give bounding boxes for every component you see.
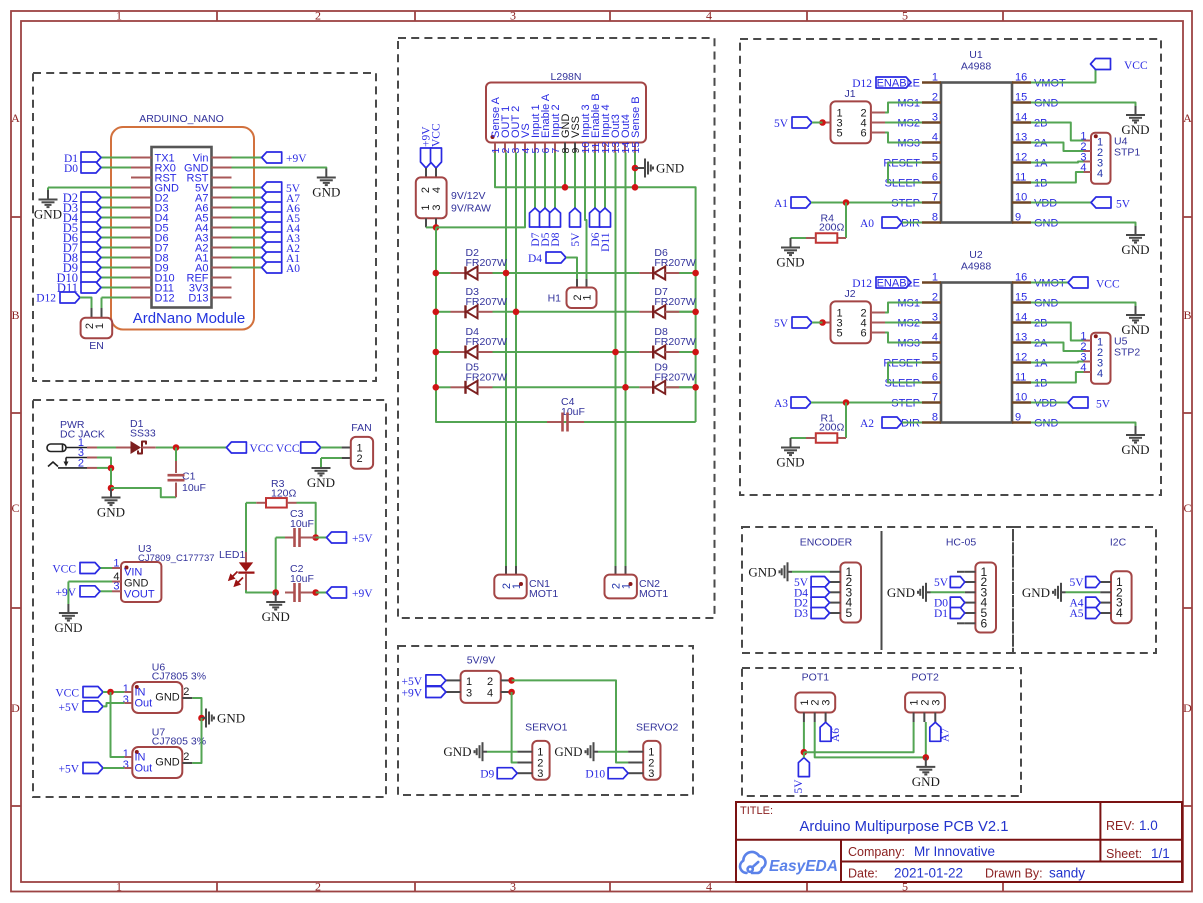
connector H1 <box>576 279 578 288</box>
connector FAN <box>342 447 351 449</box>
svg-text:VCC: VCC <box>250 443 274 455</box>
svg-text:SS33: SS33 <box>130 428 156 440</box>
svg-text:D8: D8 <box>550 232 562 246</box>
ground (SERVO1) <box>487 751 517 753</box>
svg-text:4: 4 <box>932 132 938 144</box>
svg-text:1: 1 <box>116 9 122 23</box>
flag A2 (DIR) <box>882 417 902 428</box>
junctions <box>433 309 440 316</box>
flag 5V (pot) <box>798 758 809 777</box>
svg-text:sandy: sandy <box>1049 866 1085 881</box>
pin RST (right) <box>212 177 232 179</box>
U2 pin 3 MS2 <box>922 321 941 323</box>
svg-text:J2: J2 <box>844 288 855 300</box>
svg-text:5V: 5V <box>793 779 805 794</box>
junction <box>108 485 115 492</box>
pins U3 <box>112 567 121 569</box>
ground (i2c pin2) <box>1066 591 1101 593</box>
ground (U3) <box>67 604 69 613</box>
junction <box>198 715 205 722</box>
pin D6 (left) <box>131 237 152 239</box>
junction <box>107 689 114 696</box>
flag VCC (U1) <box>1091 59 1111 70</box>
svg-text:GND: GND <box>262 609 290 624</box>
svg-text:A: A <box>1183 111 1192 125</box>
flag +9V <box>232 157 262 159</box>
svg-text:VCC: VCC <box>1124 60 1148 72</box>
flag D2 (encoder) <box>811 597 830 608</box>
junction <box>632 184 639 191</box>
svg-text:6: 6 <box>932 172 938 184</box>
pin D8 (left) <box>131 257 152 259</box>
svg-text:1/1: 1/1 <box>1151 846 1170 861</box>
U2 pin 10 VDD <box>1012 401 1031 403</box>
svg-text:A: A <box>11 111 20 125</box>
flag D1 (hc-05) <box>950 608 965 619</box>
svg-text:VCC: VCC <box>52 564 76 576</box>
U1 pin 4 MS3 <box>922 141 941 143</box>
ground (arduino left) <box>47 188 49 191</box>
svg-text:4: 4 <box>1097 168 1103 180</box>
flag VCC (U2 VMOT) <box>1031 282 1068 284</box>
svg-text:Arduino Multipurpose PCB V2.1: Arduino Multipurpose PCB V2.1 <box>800 819 1009 835</box>
svg-text:FR207W: FR207W <box>654 257 696 269</box>
pin 5V (right) <box>212 187 232 189</box>
pin D2 (left) <box>131 197 152 199</box>
U2 pin 13 2A <box>1012 341 1031 343</box>
svg-text:1: 1 <box>466 676 472 688</box>
svg-text:5: 5 <box>837 128 843 140</box>
svg-text:LED1: LED1 <box>219 549 245 561</box>
section box: i2c <box>1013 527 1156 653</box>
flag D6 <box>101 237 131 239</box>
svg-text:1: 1 <box>932 272 938 284</box>
wire 2A to stp2 <box>1031 143 1084 152</box>
flag D6 (vertical) <box>594 153 596 209</box>
svg-text:GND: GND <box>554 744 582 759</box>
wire U7 gnd up <box>192 718 201 763</box>
svg-text:2: 2 <box>932 292 938 304</box>
L298N pin 14 stub <box>624 143 626 153</box>
flag D9 (SERVO1) <box>497 768 517 779</box>
wire GND left + ground <box>48 187 131 189</box>
ground (R1) <box>790 438 792 448</box>
svg-text:+5V: +5V <box>58 702 79 714</box>
L298N pin 9 stub <box>574 143 576 153</box>
wire Out4 pin14 down to CN2 <box>625 153 627 567</box>
U2 pin 8 DIR <box>922 421 941 423</box>
svg-text:GND: GND <box>307 475 335 490</box>
svg-text:A2: A2 <box>860 418 874 430</box>
svg-text:6: 6 <box>861 128 867 140</box>
flag VCC (vertical) <box>431 148 442 168</box>
U1 pin 13 2A <box>1012 141 1031 143</box>
junction <box>272 589 279 596</box>
U1 pin 8 DIR <box>922 221 941 223</box>
chip ArdNano body <box>152 147 212 308</box>
wire C3 left down to gnd net <box>275 538 277 593</box>
wire to servo1 <box>512 692 518 763</box>
svg-text:3: 3 <box>932 312 938 324</box>
svg-text:VCC: VCC <box>55 688 79 700</box>
svg-text:H1: H1 <box>548 293 562 305</box>
connector CN2 MOT1 <box>615 566 617 575</box>
flag D8 (vertical) <box>554 153 556 209</box>
wire U3 gnd <box>68 581 112 583</box>
svg-text:J1: J1 <box>844 88 855 100</box>
svg-text:D: D <box>1183 701 1192 715</box>
svg-text:A6: A6 <box>830 728 842 742</box>
section box: potentiometers <box>742 668 1021 796</box>
flag +5V (U6) <box>83 701 103 712</box>
wire pin1 to gnd bus <box>495 153 696 423</box>
ground (pot) <box>925 757 927 767</box>
svg-text:3: 3 <box>123 759 129 771</box>
connector U4 STP1 <box>1091 133 1111 184</box>
svg-text:5V: 5V <box>934 577 949 589</box>
section box: encoder / hc-05 <box>742 527 1013 653</box>
svg-text:4: 4 <box>487 688 493 700</box>
svg-text:FR207W: FR207W <box>654 296 696 308</box>
pin A0 (right) <box>212 267 232 269</box>
svg-text:6: 6 <box>981 616 988 630</box>
svg-text:Sense B: Sense B <box>630 96 642 138</box>
left power rail <box>436 227 696 422</box>
svg-text:Mr Innovative: Mr Innovative <box>914 844 995 859</box>
svg-text:200Ω: 200Ω <box>819 222 845 234</box>
section box: power supply <box>33 400 386 797</box>
wire VCC junction to U7 in <box>111 692 125 757</box>
U2 pin 5 RESET <box>922 361 941 363</box>
flag D10 <box>101 277 131 279</box>
junction <box>923 754 930 761</box>
hc-05 pin1 stub <box>957 571 965 573</box>
svg-text:13: 13 <box>1015 332 1027 344</box>
svg-text:3: 3 <box>510 9 516 23</box>
pin D3 (left) <box>131 207 152 209</box>
flag D7 <box>101 247 131 249</box>
pin REF (right) <box>212 277 232 279</box>
svg-text:6: 6 <box>932 372 938 384</box>
svg-text:C: C <box>1183 501 1191 515</box>
U1 pin 9 GND <box>1012 221 1031 223</box>
svg-text:D10: D10 <box>585 769 605 781</box>
pin 3V3 (right) <box>212 287 232 289</box>
svg-text:5: 5 <box>932 352 938 364</box>
section box: servo <box>398 646 693 795</box>
svg-text:4: 4 <box>1116 606 1123 620</box>
svg-text:D: D <box>11 701 20 715</box>
svg-text:CJ7805 3%: CJ7805 3% <box>152 736 206 748</box>
flag +9V (vertical) <box>421 148 432 168</box>
U2 pin 12 1A <box>1012 361 1031 363</box>
svg-text:STP2: STP2 <box>1114 347 1140 359</box>
U1 pin 14 2B <box>1012 121 1031 123</box>
J1 left pin <box>823 122 831 124</box>
svg-text:5V: 5V <box>774 318 789 330</box>
flag A7 (pot2) <box>930 722 941 741</box>
wire GND15 to ground <box>1031 103 1136 107</box>
pin GND (left) <box>131 187 152 189</box>
svg-text:11: 11 <box>1015 172 1026 184</box>
svg-text:2: 2 <box>487 676 493 688</box>
flag A4 (i2c) <box>1086 597 1101 608</box>
pin A6 (right) <box>212 207 232 209</box>
wire 1A to stp3 <box>1031 362 1084 363</box>
ground (pin9) <box>1135 226 1137 235</box>
svg-text:2: 2 <box>183 686 189 698</box>
U2 pin 6 SLEEP <box>922 381 941 383</box>
svg-text:ArdNano Module: ArdNano Module <box>133 310 246 327</box>
svg-text:10uF: 10uF <box>182 482 206 494</box>
flag D12 + wires to EN <box>102 297 132 299</box>
svg-text:2021-01-22: 2021-01-22 <box>894 866 963 881</box>
J2 right pins to MS1-MS3 <box>871 312 885 314</box>
svg-text:SERVO1: SERVO1 <box>525 722 568 734</box>
flag VCC (U6) <box>83 687 103 698</box>
wire down to gnd junction <box>110 468 112 488</box>
ground (arduino right) <box>325 169 327 178</box>
ground (pin9) <box>1135 426 1137 435</box>
svg-text:FR207W: FR207W <box>466 257 508 269</box>
pin D10 (left) <box>131 277 152 279</box>
pin D12 (left) <box>131 297 152 299</box>
svg-text:16: 16 <box>1015 72 1027 84</box>
svg-text:Company:: Company: <box>848 845 905 859</box>
diode row wire y=352 <box>435 351 451 353</box>
svg-text:GND: GND <box>1121 242 1149 257</box>
wire 1A to stp3 <box>1031 162 1084 163</box>
svg-text:CJ7805 3%: CJ7805 3% <box>152 671 206 683</box>
svg-text:D1: D1 <box>934 608 948 620</box>
svg-text:5: 5 <box>902 9 908 23</box>
svg-text:GND: GND <box>34 207 62 222</box>
section box: stepper drivers <box>740 39 1161 495</box>
J2 left pin <box>823 322 831 324</box>
svg-text:1: 1 <box>94 323 106 329</box>
svg-text:D13: D13 <box>188 293 208 305</box>
svg-text:SERVO2: SERVO2 <box>636 722 679 734</box>
U2 pin 1 ENABLE <box>922 281 941 283</box>
connector U5 STP2 <box>1091 333 1111 384</box>
svg-text:Out: Out <box>135 698 153 710</box>
svg-text:D9: D9 <box>480 769 494 781</box>
svg-text:A3: A3 <box>774 398 788 410</box>
svg-text:D11: D11 <box>600 232 612 252</box>
L298N pin 12 stub <box>604 143 606 153</box>
svg-text:3: 3 <box>648 768 654 780</box>
junction <box>562 184 569 191</box>
wire GND15 to ground <box>1031 303 1136 307</box>
pin GND (right) <box>212 167 232 169</box>
wire Out3 pin13 down to CN2 <box>615 153 617 567</box>
ground (SERVO2) <box>598 751 628 753</box>
ground (R4) <box>790 238 792 248</box>
wire GND9 to ground <box>1031 223 1136 227</box>
connector EN <box>91 308 93 318</box>
svg-text:GND: GND <box>776 455 804 470</box>
pin D4 (left) <box>131 217 152 219</box>
svg-text:HC-05: HC-05 <box>946 537 977 549</box>
U2 pin 16 VMOT <box>1012 281 1031 283</box>
flag D3 <box>101 207 131 209</box>
svg-text:GND: GND <box>97 505 125 520</box>
svg-text:GND: GND <box>887 585 915 600</box>
flag +5V (U7) <box>83 763 103 774</box>
U2 pin 9 GND <box>1012 421 1031 423</box>
ground (L298N) <box>635 167 645 169</box>
svg-text:I2C: I2C <box>1110 537 1127 549</box>
svg-text:7: 7 <box>932 392 938 404</box>
svg-text:GND: GND <box>656 161 684 176</box>
svg-text:Date:: Date: <box>848 867 878 881</box>
svg-text:GND: GND <box>776 255 804 270</box>
flag 5V (vertical) <box>574 153 576 209</box>
svg-text:GND: GND <box>54 620 82 635</box>
wire 1B to stp4 <box>1031 172 1084 183</box>
svg-text:D12: D12 <box>36 293 56 305</box>
pin stubs DC jack <box>87 447 97 449</box>
pin A3 (right) <box>212 237 232 239</box>
wire 9V raw to VS pin4 <box>426 226 436 228</box>
flag A6 (pot1) <box>825 721 827 723</box>
wire pin8 GND down <box>564 153 566 188</box>
flag +9V (C2) <box>316 592 327 594</box>
svg-text:5V: 5V <box>774 118 789 130</box>
junction <box>508 689 515 696</box>
flag +5V <box>316 537 327 539</box>
flag D12 (U2 enable) <box>876 277 911 288</box>
flag A6 <box>232 207 262 209</box>
svg-text:4: 4 <box>706 9 712 23</box>
svg-text:U2: U2 <box>969 249 983 261</box>
svg-text:D3: D3 <box>794 608 808 620</box>
L298N pin 3 stub <box>514 143 516 153</box>
wire D1 to VCC flag <box>156 447 227 449</box>
svg-text:5: 5 <box>932 152 938 164</box>
U2 pin 11 1B <box>1012 381 1031 383</box>
pin RX0 (left) <box>131 167 152 169</box>
svg-text:D12: D12 <box>155 293 175 305</box>
svg-text:+5V: +5V <box>352 533 373 545</box>
svg-text:REV:: REV: <box>1106 819 1135 833</box>
svg-text:4: 4 <box>932 332 938 344</box>
svg-text:9V/12V: 9V/12V <box>451 190 485 202</box>
svg-text:15: 15 <box>1015 292 1027 304</box>
svg-text:FR207W: FR207W <box>654 371 696 383</box>
svg-text:14: 14 <box>1015 312 1027 324</box>
flag +9V (servo supply) <box>426 687 446 698</box>
flag A7 <box>232 197 262 199</box>
pin D9 (left) <box>131 267 152 269</box>
U2 pin 7 STEP <box>922 401 941 403</box>
flag D0 (hc-05) <box>950 597 965 608</box>
svg-text:5V: 5V <box>1069 577 1084 589</box>
flag +5V (servo supply) <box>426 675 446 686</box>
svg-text:3: 3 <box>932 112 938 124</box>
L298N pin 15 stub <box>634 143 636 153</box>
flag 5V (i2c) <box>1086 577 1101 588</box>
L298N pin 7 stub <box>554 143 556 153</box>
ground (encoder pin1) <box>792 571 830 573</box>
svg-text:2: 2 <box>357 453 363 465</box>
svg-text:15: 15 <box>630 142 642 154</box>
pin A1 (right) <box>212 257 232 259</box>
flag 5V (J1) <box>792 117 812 128</box>
wire to servo2 <box>512 680 628 762</box>
svg-text:3: 3 <box>510 880 516 894</box>
U1 pin 1 ENABLE <box>922 81 941 83</box>
svg-text:+9V: +9V <box>352 588 373 600</box>
flag D4 to H1 <box>546 252 566 263</box>
wire fan pin2 to gnd <box>321 457 342 459</box>
svg-text:6: 6 <box>861 328 867 340</box>
svg-text:12: 12 <box>1015 352 1027 364</box>
ground (U6/U7) <box>202 717 207 719</box>
ground (hc-05 pin3) <box>931 591 965 593</box>
svg-text:GND: GND <box>748 564 776 579</box>
diode row wire y=273 <box>435 272 451 274</box>
flag 5V (U2 VDD) <box>1031 402 1068 404</box>
svg-text:14: 14 <box>1015 112 1027 124</box>
svg-text:GND: GND <box>1121 442 1149 457</box>
svg-text:12: 12 <box>1015 152 1027 164</box>
svg-text:3: 3 <box>466 688 472 700</box>
U1 pin 2 MS1 <box>922 101 941 103</box>
svg-text:8: 8 <box>932 412 938 424</box>
svg-text:1: 1 <box>582 294 594 300</box>
svg-text:200Ω: 200Ω <box>819 422 845 434</box>
svg-text:9: 9 <box>1015 212 1021 224</box>
L298N pin 2 stub <box>504 143 506 153</box>
wire pin15 down <box>634 153 636 188</box>
U2 pin 15 GND <box>1012 301 1031 303</box>
svg-text:MOT1: MOT1 <box>529 588 558 600</box>
L298N pin 13 stub <box>614 143 616 153</box>
svg-text:A0: A0 <box>860 218 874 230</box>
ground (fan) <box>320 467 322 470</box>
flag A3 (STEP) <box>791 397 811 408</box>
svg-text:VOUT: VOUT <box>124 589 155 601</box>
wire GND9 to ground <box>1031 423 1136 427</box>
flag A0 <box>232 267 262 269</box>
C4 row wire <box>436 421 547 423</box>
L298N pin 8 stub <box>564 143 566 153</box>
ground (pin15) <box>1135 106 1137 115</box>
svg-text:Sheet:: Sheet: <box>1106 847 1142 861</box>
wire pot1-pot2 5V line <box>804 722 914 752</box>
wire VDD to 5V (U1) <box>1031 202 1091 204</box>
wire R3 right to C3 <box>297 503 316 538</box>
svg-text:GND: GND <box>1121 322 1149 337</box>
L298N pin 1 stub <box>494 143 496 153</box>
pin D5 (left) <box>131 227 152 229</box>
svg-text:2: 2 <box>315 880 321 894</box>
divider line encoder/hc-05 <box>881 531 883 650</box>
svg-text:D0: D0 <box>64 163 78 175</box>
svg-text:10: 10 <box>1015 192 1027 204</box>
U1 pin 10 VDD <box>1012 201 1031 203</box>
flag A2 <box>232 247 262 249</box>
flag 5V (hc-05) <box>950 577 965 588</box>
svg-text:ENCODER: ENCODER <box>800 537 853 549</box>
L298N pin 4 stub <box>524 143 526 153</box>
wire RESET-SLEEP loop <box>888 363 922 383</box>
svg-text:13: 13 <box>1015 132 1027 144</box>
svg-text:+5V: +5V <box>401 676 422 688</box>
flag A5 <box>232 217 262 219</box>
svg-text:10: 10 <box>1015 392 1027 404</box>
